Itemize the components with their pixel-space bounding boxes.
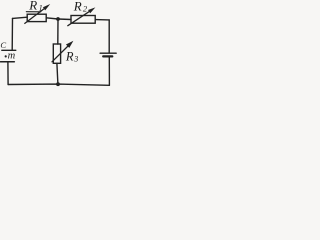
wire capacitor bottom plate to bottom-left corner [7,62,9,84]
arrowhead of R1 [43,4,50,10]
svg-text:2: 2 [83,4,88,14]
rheostat arrow R3 shaft [52,46,68,62]
svg-text:R: R [73,0,82,13]
wire R2 to top-right corner [95,19,109,21]
junction node dot top (between R1 and R2) [56,17,60,21]
capacitor C top plate [2,49,16,51]
battery positive plate (long thin) [100,52,116,54]
svg-text:C: C [0,40,6,50]
wire top-left corner to R1 [13,17,28,18]
svg-text:R: R [28,0,37,13]
arrowhead of R3 [66,41,74,48]
wire left side down to capacitor [11,18,13,50]
wire R1 to top junction [46,18,58,19]
wire right side top to battery [108,20,110,53]
charged particle dot between capacitor plates [5,55,7,57]
R1 label underline stroke [26,11,41,13]
wire top junction down to R3 [57,19,59,44]
junction node dot bottom (below R3) [56,82,60,86]
wire R3 to bottom junction [57,63,58,84]
capacitor C bottom plate [0,61,14,63]
resistor R2 body [71,16,95,24]
svg-text:3: 3 [73,54,78,63]
resistor R3 body [53,44,60,63]
rheostat arrow R1 shaft [25,9,45,24]
arrowhead of R2 [88,7,95,13]
rheostat arrow R2 shaft [68,11,90,25]
wire bottom [8,84,109,85]
battery negative plate (short thick) [103,55,112,57]
svg-text:R: R [65,50,74,64]
resistor R1 body [27,14,46,21]
wire battery to bottom-right corner [108,57,110,85]
svg-text:1: 1 [39,3,43,12]
wire top junction to R2 [58,18,71,21]
svg-text:m: m [8,51,16,62]
